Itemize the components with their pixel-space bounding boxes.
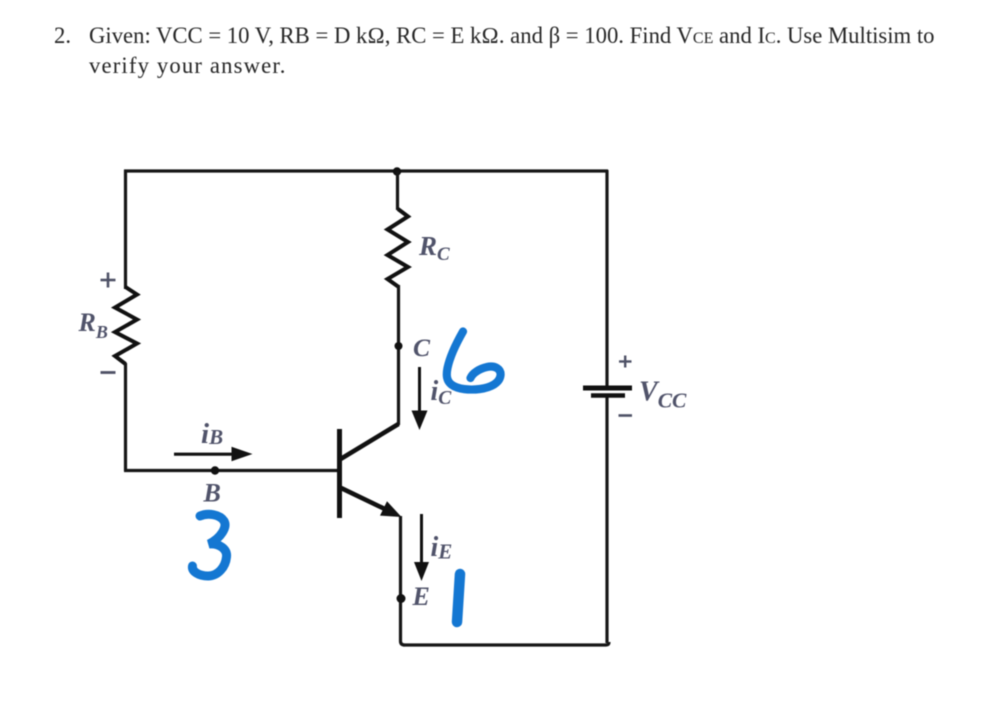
current arrow iC (412, 367, 428, 430)
transistor emitter lead (339, 487, 390, 512)
node top junction (393, 167, 401, 175)
transistor emitter arrowhead (380, 501, 402, 517)
svg-text:Given: VCC = 10 V, RB = D kΩ,: Given: VCC = 10 V, RB = D kΩ, RC = E kΩ.… (89, 23, 935, 48)
svg-text:B: B (203, 479, 221, 508)
label + (RB) (101, 273, 116, 288)
current arrow iB (174, 447, 253, 461)
wire emitter (401, 516, 405, 645)
svg-text:iE: iE (431, 532, 453, 564)
svg-text:verify your answer.: verify your answer. (89, 53, 287, 78)
wire base (124, 469, 339, 472)
battery VCC plate short (591, 393, 625, 398)
wire RC top lead (396, 171, 399, 210)
node E (397, 594, 406, 603)
svg-text:RB: RB (78, 308, 108, 342)
transistor Q1 (339, 424, 402, 518)
annotation blue 1 (457, 574, 460, 622)
transistor bar (337, 429, 342, 518)
wire left upper (124, 170, 127, 289)
label - (VCC) (619, 414, 633, 417)
wire collector (397, 285, 400, 425)
wire bottom (403, 642, 609, 645)
resistor RB (115, 287, 137, 364)
transistor collector lead (339, 424, 399, 460)
svg-text:VCC: VCC (639, 377, 687, 413)
resistor RC (388, 209, 409, 287)
battery VCC plate long (583, 386, 632, 391)
label + (VCC) (619, 356, 632, 368)
svg-text:2.: 2. (54, 23, 71, 48)
wire right upper (605, 170, 608, 386)
label - (RB) (101, 371, 116, 374)
annotation blue 3 (192, 514, 226, 576)
svg-text:E: E (412, 582, 430, 611)
wire top (124, 169, 608, 172)
node B (211, 466, 219, 474)
node C (395, 342, 403, 350)
current arrow iE (414, 514, 429, 581)
wire right lower (605, 397, 608, 643)
svg-text:C: C (413, 333, 431, 362)
svg-text:iB: iB (201, 418, 223, 450)
wire left lower (124, 363, 127, 471)
svg-text:RC: RC (418, 231, 450, 265)
annotation blue 6 (447, 332, 501, 390)
